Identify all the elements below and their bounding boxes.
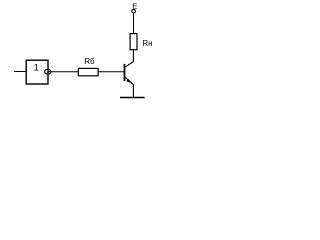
svg-text:E: E [132, 1, 137, 10]
wire input to gate [14, 71, 27, 73]
svg-text:1: 1 [34, 63, 39, 74]
transistor VT1 collector lead [125, 50, 134, 67]
wire resistor Rn to terminal E [133, 13, 135, 33]
svg-text:Rн: Rн [142, 39, 152, 48]
resistor Rb body [78, 68, 98, 75]
ground [120, 97, 145, 99]
wire gate output to resistor Rb [48, 71, 78, 73]
inversion bubble on gate output [45, 69, 51, 74]
transistor VT1 base bar [124, 64, 126, 81]
logic gate DD1 (inverter) body [26, 60, 48, 84]
svg-text:Rб: Rб [84, 57, 95, 66]
transistor VT1 emitter lead [125, 77, 134, 97]
transistor VT1 emitter arrow [126, 79, 130, 83]
resistor Rn body [130, 34, 137, 50]
wire resistor Rb to transistor base [98, 71, 124, 73]
terminal E circle [132, 9, 136, 13]
